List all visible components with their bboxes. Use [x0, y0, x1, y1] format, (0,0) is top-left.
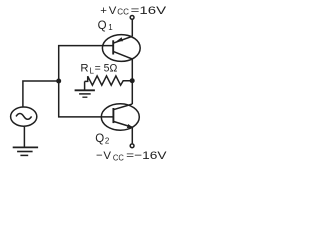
svg-text:Q: Q — [98, 20, 107, 32]
svg-text:V: V — [109, 5, 117, 17]
svg-text:2: 2 — [105, 137, 110, 146]
svg-text:+: + — [100, 5, 107, 17]
svg-text:R: R — [80, 63, 88, 75]
svg-text:=16V: =16V — [131, 5, 167, 17]
svg-text:−: − — [96, 150, 103, 162]
svg-text:CC: CC — [117, 7, 129, 16]
svg-text:V: V — [103, 150, 111, 162]
svg-text:= 5Ω: = 5Ω — [95, 63, 118, 75]
svg-text:=−16V: =−16V — [126, 150, 167, 162]
svg-text:CC: CC — [113, 153, 124, 162]
svg-text:1: 1 — [108, 23, 113, 32]
svg-text:Q: Q — [95, 133, 104, 145]
